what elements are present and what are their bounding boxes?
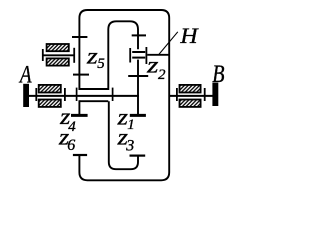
planet bearing upper dash [132, 51, 145, 53]
left bearing lower box [39, 100, 61, 107]
gear z5 top tooth dash [72, 36, 87, 38]
tick left of left bearing [35, 88, 37, 101]
left bearing upper box [39, 85, 61, 93]
gear z5 bottom tooth dash [73, 74, 89, 76]
planet bearing cage right tick [145, 47, 147, 64]
svg-text:A: A [18, 61, 32, 88]
sleeve bridge upper bar [79, 88, 108, 90]
svg-text:3: 3 [125, 138, 134, 155]
svg-text:1: 1 [127, 117, 135, 133]
carrier H outer frame: left upper side [79, 10, 169, 180]
inner loop lower (gear z3 web) [109, 101, 138, 169]
svg-text:B: B [212, 61, 224, 88]
upper-left bearing upper box [47, 44, 69, 51]
planet bearing cage left tick [129, 48, 131, 63]
gear z2 bottom tooth dash (mesh with z1) [128, 75, 148, 77]
carrier arm shaft to planet [147, 54, 169, 56]
svg-text:6: 6 [67, 137, 75, 154]
gear z1 foot tooth dash [130, 114, 146, 117]
svg-text:2: 2 [158, 67, 166, 83]
leader line to H [158, 32, 177, 55]
sleeve tick right [112, 88, 114, 101]
tick left of right bearing [176, 88, 178, 101]
right bearing lower box [180, 100, 201, 107]
planet bearing lower dash [132, 57, 145, 59]
gear z2 top tooth dash [132, 34, 146, 36]
svg-text:4: 4 [68, 119, 76, 135]
tick right of left bearing [64, 88, 66, 101]
inner loop upper (ring gear web) [108, 21, 138, 90]
gear z6 head tooth dash [73, 154, 87, 156]
gear z4 foot tooth dash [71, 114, 88, 117]
sleeve tick left [76, 88, 78, 101]
tick right of right bearing [204, 88, 206, 101]
svg-text:H: H [179, 23, 199, 48]
gear z3 head tooth dash [130, 155, 146, 157]
svg-text:z: z [146, 53, 159, 78]
svg-text:z: z [86, 44, 98, 69]
main axis left segment [26, 95, 139, 97]
right bearing upper box [180, 85, 201, 93]
shaft B end bar [212, 83, 218, 106]
shaft A end bar [23, 84, 29, 107]
upper-left shaft (z5 axle) [42, 54, 74, 56]
sleeve bridge lower bar [79, 100, 108, 102]
tick at its right end [73, 48, 75, 63]
carrier frame left lower stem (gear z4 stem) [78, 100, 80, 114]
tick at its left end [42, 49, 44, 61]
gear line z2/z1 (central column) [137, 60, 139, 115]
main axis right segment [169, 95, 213, 97]
svg-text:5: 5 [97, 56, 105, 72]
upper-left bearing lower box [47, 58, 69, 65]
